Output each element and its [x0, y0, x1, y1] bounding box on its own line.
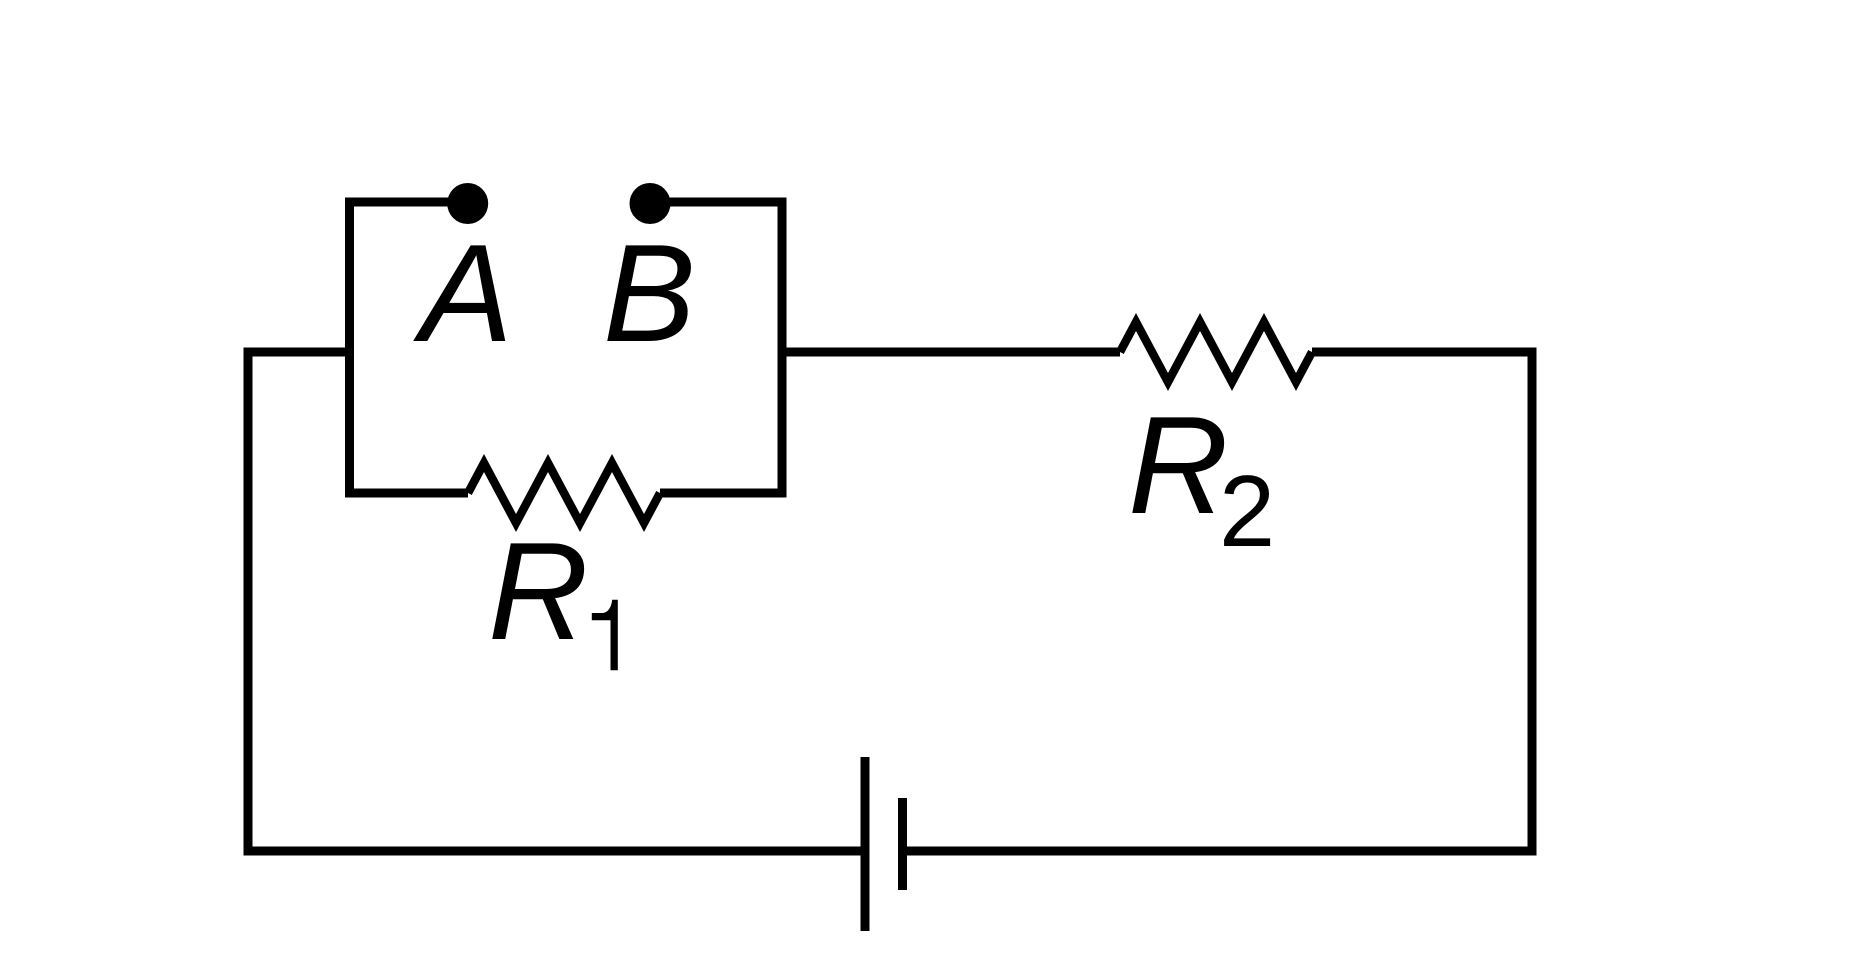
svg-text:2: 2: [1219, 456, 1275, 568]
resistor R2: [1120, 322, 1312, 382]
svg-text:R: R: [488, 514, 588, 669]
svg-text:R: R: [1128, 388, 1228, 543]
wire: parallel-block right branch (from R1 up to node B): [660, 202, 782, 493]
resistor R1: [468, 463, 660, 523]
node B (switch terminal dot): [630, 183, 671, 224]
battery: long plate: [861, 757, 870, 931]
wire: left outer run (top stub, left side, bottom-left to battery): [248, 352, 865, 851]
wire: parallel-block left branch (to node A, left side, bottom to R1): [350, 202, 469, 493]
svg-text:B: B: [603, 216, 696, 371]
node A (switch terminal dot): [447, 183, 488, 224]
wire: top wire from parallel block to R2: [778, 348, 1121, 357]
battery: short plate: [898, 798, 907, 890]
svg-text:A: A: [413, 216, 513, 371]
wire: right outer run (battery to bottom-right, right side, top-right to R2): [903, 352, 1533, 851]
